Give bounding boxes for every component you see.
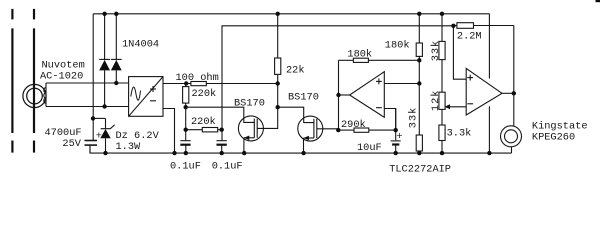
- transistor Q2 BS170: [288, 91, 323, 153]
- svg-text:0.1uF: 0.1uF: [212, 160, 243, 172]
- svg-text:220k: 220k: [192, 88, 217, 100]
- svg-text:22k: 22k: [286, 64, 305, 76]
- wire: bridge + output to 9V rail: [163, 83, 278, 85]
- wire: Q1 drain up to 22k and 9V node: [257, 74, 278, 128]
- svg-text:25V: 25V: [62, 138, 81, 150]
- resistor 3.3k: [439, 125, 471, 153]
- mains line N (right, dashed-solid-dashed): [33, 9, 35, 153]
- svg-text:+: +: [396, 131, 402, 143]
- label Dz 6.2V 1.3W: [116, 130, 160, 153]
- resistor 180k (feedback, horizontal): [339, 49, 420, 63]
- diode D1 1N4004 (left): [99, 14, 110, 107]
- wire: output down to speaker: [513, 93, 515, 126]
- svg-text:10uF: 10uF: [357, 142, 382, 154]
- potentiometer 12k: [439, 92, 466, 125]
- speaker Kingstate KPEG260 (double circle): [501, 126, 522, 147]
- svg-text:2.2M: 2.2M: [457, 31, 482, 43]
- diode D2 1N4004 (right): [111, 14, 122, 83]
- svg-text:0.1uF: 0.1uF: [170, 160, 201, 172]
- resistor 100 ohm: [176, 72, 219, 86]
- node: tap to cap/zener: [93, 117, 106, 119]
- wire: secondary top / +9V rail segment into bridge: [46, 82, 129, 84]
- svg-text:BS170: BS170: [288, 91, 319, 103]
- resistor 2.2M: [453, 23, 513, 43]
- svg-text:KPEG260: KPEG260: [532, 131, 575, 143]
- scan artifact top right: [596, 0, 600, 2]
- wire: op1 output to junction: [339, 94, 350, 96]
- capacitor 10uF (polarized): [357, 109, 403, 154]
- mains line L (left, dashed-solid-dashed): [11, 9, 13, 153]
- svg-text:BS170: BS170: [234, 97, 265, 109]
- ground rail: [90, 146, 512, 153]
- svg-text:Nuvotem: Nuvotem: [42, 59, 85, 71]
- wire: Q2 drain to op-amp node: [317, 128, 339, 130]
- wire: feedback rail (second top rail) down leg: [222, 26, 453, 140]
- resistor 220k (lower, horizontal): [186, 116, 222, 132]
- wire: M1 gate from divider: [186, 107, 255, 122]
- svg-text:33k: 33k: [430, 40, 442, 62]
- wire: Q2 gate from Q1 drain node: [278, 107, 315, 122]
- wire: 2.2M feedback drop to output: [513, 26, 515, 94]
- label Kingstate KPEG260: [532, 120, 588, 143]
- svg-text:1.3W: 1.3W: [116, 141, 142, 153]
- svg-text:1N4004: 1N4004: [122, 39, 159, 51]
- wire: rail2 dot down to op2 + input: [453, 26, 466, 79]
- svg-text:3.3k: 3.3k: [447, 128, 472, 140]
- resistor 22k: [275, 14, 305, 77]
- resistor 180k (vertical): [385, 14, 423, 84]
- wire: supply drop through op2 to ground: [488, 14, 490, 153]
- transformer T1 Nuvotem AC-1020 box: [44, 83, 46, 107]
- capacitor C1 4700uF 25V: [85, 130, 102, 153]
- svg-text:290k: 290k: [341, 119, 366, 131]
- resistor 33k (op1 side, vertical): [408, 84, 423, 154]
- resistor 290k: [339, 119, 396, 132]
- svg-text:220k: 220k: [191, 116, 216, 128]
- wire: op1 output junction vertical: [338, 60, 340, 130]
- transistor Q1 BS170: [234, 97, 265, 153]
- capacitor 0.1uF (right): [212, 141, 243, 173]
- wire: op1 + input: [384, 83, 419, 85]
- op-amp U1a (left-pointing triangle): [350, 72, 385, 118]
- capacitor 0.1uF (left): [170, 141, 201, 173]
- wire: op2 output: [502, 92, 514, 94]
- resistor 33k (op2 side, vertical): [439, 14, 445, 92]
- resistor 220k (upper, vertical): [183, 84, 217, 141]
- label Nuvotem AC-1020: [40, 59, 85, 82]
- svg-text:100 ohm: 100 ohm: [176, 72, 219, 84]
- svg-text:180k: 180k: [385, 39, 410, 51]
- wire: bridge - output down to ground: [163, 109, 175, 154]
- svg-text:TLC2272AIP: TLC2272AIP: [389, 164, 451, 176]
- zener diode Dz 6.2V 1.3W: [100, 118, 114, 153]
- svg-text:+: +: [96, 130, 102, 142]
- bridge rectifier module: [129, 77, 163, 117]
- op-amp U1b (right-pointing triangle): [466, 68, 502, 115]
- svg-text:AC-1020: AC-1020: [40, 71, 83, 83]
- wire: transformer right edge / tap down to cap node: [92, 14, 94, 140]
- wire: op1 - input to 290k node: [384, 109, 395, 131]
- wire: speaker bottom to ground rail: [511, 147, 513, 153]
- svg-text:12k: 12k: [430, 90, 442, 112]
- AC plug connector (double circle): [23, 84, 46, 107]
- svg-text:33k: 33k: [408, 107, 420, 129]
- label 4700uF 25V: [45, 127, 82, 150]
- wire: secondary bottom into bridge: [46, 106, 129, 108]
- wire: top supply rail: [93, 13, 489, 15]
- svg-text:180k: 180k: [347, 49, 372, 61]
